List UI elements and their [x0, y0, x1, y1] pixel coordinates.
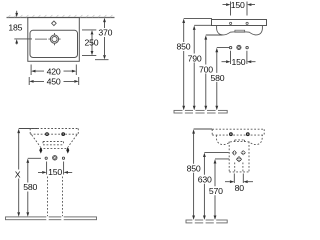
fixing hole left (pedestal view) [45, 157, 47, 159]
drain crosshair ticks [48, 33, 60, 45]
svg-text:150: 150 [231, 57, 245, 67]
svg-text:X: X [15, 169, 21, 179]
dimension 370 [95, 22, 109, 60]
drain cross (semi-pedestal view) [236, 156, 242, 162]
dimension 450 [29, 77, 78, 85]
dashed bowl bottom (pedestal view) [40, 148, 66, 150]
svg-text:850: 850 [187, 163, 201, 173]
rim hole left [230, 22, 232, 24]
rim hole right [246, 22, 248, 24]
fixing arrow right (pedestal view) [66, 147, 69, 154]
dimension 580 (front view) [217, 48, 230, 106]
fixing hole left (front view) [229, 46, 231, 48]
rim dot left (pedestal view) [46, 133, 49, 136]
dimension 185 [14, 11, 32, 45]
dimension 630 (semi-pedestal view) [204, 152, 228, 215]
label 700 (front view) [199, 66, 213, 74]
dashed bowl underside (semi-pedestal view) [216, 135, 262, 145]
dashed overflow slot (semi-pedestal view) [235, 140, 245, 142]
floor line (semi-pedestal view) [186, 220, 227, 223]
dashed taper sides (pedestal view) [32, 135, 77, 147]
pedestal view: dimension 580 [28, 158, 41, 212]
fixing arrow left (pedestal view) [39, 147, 42, 154]
faucet hole center (front view) [237, 45, 241, 49]
dimension 570 (semi-pedestal view) [215, 159, 229, 216]
faucet hole diamond [52, 21, 57, 26]
front view basin rim band [212, 20, 267, 26]
dashed drain pipe (semi-pedestal view) [235, 163, 243, 172]
bracket cross left (semi-pedestal view) [232, 150, 237, 155]
svg-text:450: 450 [47, 77, 61, 87]
bracket cross right (semi-pedestal view) [241, 150, 246, 155]
wall hatching [8, 15, 112, 17]
svg-text:630: 630 [198, 174, 212, 184]
dimension 150 (pedestal view) [38, 162, 72, 175]
dimension 150 top [223, 2, 256, 16]
dimension 790 (front view) [194, 25, 212, 106]
svg-text:580: 580 [23, 182, 37, 192]
rim dot right (pedestal view) [62, 133, 65, 136]
svg-text:580: 580 [210, 73, 224, 83]
label 790 (front view) [188, 55, 202, 63]
drain centerline [35, 38, 47, 40]
fixing hole right (front view) [246, 46, 248, 48]
svg-text:150: 150 [48, 167, 62, 177]
rim dot left (semi-pedestal view) [230, 133, 233, 136]
dimension 250 [82, 30, 96, 56]
dashed overflow box (pedestal view) [43, 142, 64, 145]
label 580 (front view) [210, 74, 224, 82]
svg-text:570: 570 [209, 186, 223, 196]
overflow slot [235, 30, 245, 32]
fixing hole right (pedestal view) [62, 157, 64, 159]
svg-text:370: 370 [98, 28, 112, 38]
floor line (pedestal view) [6, 217, 97, 220]
label 850 (front view) [177, 43, 191, 51]
floor line (front view) [174, 110, 227, 113]
dimension 700 (front view) [206, 35, 223, 106]
basin outer rectangle (plan view) [28, 18, 80, 62]
faucet hole center (pedestal view) [53, 156, 57, 160]
dimension 420 [31, 65, 76, 76]
drain inner circle [52, 37, 57, 42]
basin inner bowl rounded rectangle [30, 30, 78, 57]
svg-text:150: 150 [231, 0, 245, 10]
dashed pedestal sides [48, 177, 63, 217]
dashed basin rim band (semi-pedestal view) [212, 129, 264, 172]
dashed semi-pedestal sides [229, 142, 249, 172]
svg-text:185: 185 [8, 23, 22, 33]
dashed basin outline (pedestal view) [30, 129, 78, 149]
pedestal view: dimension X [19, 129, 38, 213]
svg-text:420: 420 [47, 66, 61, 76]
dimension 850 (semi-pedestal view) [194, 129, 212, 216]
dimension 150 bottom (front view) [222, 51, 256, 64]
svg-text:850: 850 [177, 42, 191, 52]
svg-text:790: 790 [188, 53, 202, 63]
dimension 850 (front view) [184, 18, 212, 106]
svg-text:250: 250 [85, 37, 99, 47]
svg-text:80: 80 [235, 183, 245, 193]
bowl underside profile [217, 26, 263, 35]
wall line (plan view top) [7, 17, 115, 19]
rim dot right (semi-pedestal view) [247, 133, 250, 136]
drain outer circle [50, 35, 58, 43]
dimension 80 [225, 174, 253, 184]
